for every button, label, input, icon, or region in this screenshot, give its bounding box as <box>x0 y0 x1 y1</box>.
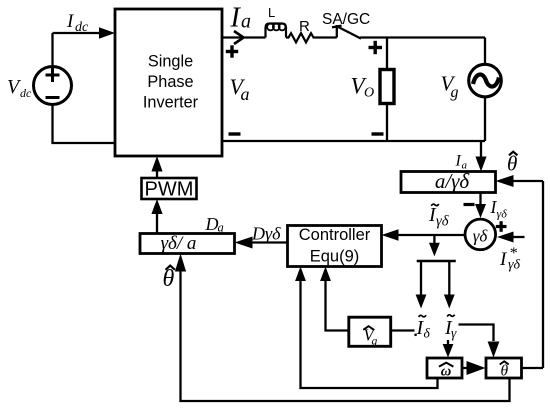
label L <box>268 5 275 20</box>
arrow omega to theta <box>462 367 467 369</box>
arrow gd/a to PWM <box>156 214 158 234</box>
wire Vdc top lead <box>51 33 53 67</box>
switch SA/GC <box>336 25 338 38</box>
svg-text:R: R <box>299 18 310 35</box>
arrow PWM to inverter <box>156 172 158 179</box>
inductor L <box>266 24 287 38</box>
svg-text:Inverter: Inverter <box>143 94 199 112</box>
wire theta feedback into a/gd <box>513 180 543 182</box>
arrow Ia on wire <box>234 31 244 44</box>
svg-text:I: I <box>499 249 508 270</box>
svg-text:SA/GC: SA/GC <box>322 11 370 28</box>
svg-text:I: I <box>455 153 462 170</box>
svg-text:dc: dc <box>20 86 32 100</box>
svg-text:γ: γ <box>451 326 457 341</box>
svg-text:D: D <box>205 214 219 234</box>
wire summing output to controller <box>398 234 465 236</box>
label R <box>299 18 310 35</box>
label theta-hat bottom <box>163 266 175 292</box>
label Id-tilde <box>416 317 431 341</box>
svg-text:PWM: PWM <box>145 179 194 201</box>
wire Vg-hat to controller <box>326 281 349 331</box>
svg-text:Phase: Phase <box>147 73 193 91</box>
block gd/a <box>140 234 235 254</box>
wire Vg bottom lead <box>484 98 486 141</box>
wire Ig-tilde arrow <box>448 261 450 295</box>
label Da <box>205 214 224 235</box>
source Vg <box>469 64 502 97</box>
svg-text:a: a <box>218 221 224 235</box>
wire Vg-hat right stub <box>391 329 415 331</box>
label Dgd <box>251 224 281 244</box>
svg-text:γδ: γδ <box>497 207 508 221</box>
block Vg-hat <box>349 317 391 346</box>
label Idc <box>66 11 89 35</box>
svg-text:L: L <box>268 5 275 20</box>
summing junction gd <box>465 219 496 250</box>
minus Va <box>229 132 241 135</box>
svg-text:γδ/ a: γδ/ a <box>161 233 197 254</box>
plus Va <box>226 45 238 57</box>
svg-text:Dγδ: Dγδ <box>251 224 281 244</box>
wire bottom rail <box>222 140 485 142</box>
load Vo <box>380 70 394 104</box>
wire Igd-star input <box>511 236 525 238</box>
wire branch down from output <box>433 235 435 243</box>
svg-text:Equ(9): Equ(9) <box>310 248 360 266</box>
wire switch to top-right corner <box>360 36 485 38</box>
wire theta output right <box>522 367 544 369</box>
wire right vertical <box>542 181 544 368</box>
wire Ig to theta block <box>459 325 494 342</box>
svg-text:γδ: γδ <box>436 214 449 230</box>
wire to switch <box>317 36 337 38</box>
wire Id-tilde arrow <box>420 261 422 295</box>
wire theta bottom feedback <box>181 271 510 401</box>
minus Vo <box>372 132 384 135</box>
block inverter <box>115 9 222 156</box>
resistor R <box>286 33 317 42</box>
source Vdc <box>34 67 72 105</box>
svg-text:dc: dc <box>75 20 89 35</box>
svg-text:Single: Single <box>148 53 193 71</box>
wire bottom to inverter <box>51 142 115 144</box>
label Igd-star <box>499 245 521 273</box>
wire Ig to omega block <box>447 340 449 345</box>
svg-text:θ: θ <box>163 266 175 292</box>
wire controller to gd/a <box>252 241 288 243</box>
block PWM <box>142 178 197 199</box>
svg-text:a: a <box>241 11 251 33</box>
wire Vo top lead <box>386 38 388 69</box>
svg-text:θ: θ <box>500 363 508 380</box>
svg-text:a: a <box>241 84 250 104</box>
plus sign summing <box>496 221 507 232</box>
label Vo <box>351 74 375 101</box>
plus Vo <box>369 41 383 54</box>
block omega-hat <box>427 358 462 378</box>
wire Ia output <box>222 36 266 38</box>
label Vdc <box>7 76 32 100</box>
label Ia <box>230 3 252 34</box>
minus sign summing <box>464 203 475 206</box>
block controller <box>288 226 382 267</box>
wire Vdc bottom lead <box>51 105 53 144</box>
svg-text:g: g <box>372 336 378 348</box>
svg-text:O: O <box>364 86 374 101</box>
svg-text:γδ: γδ <box>473 227 489 246</box>
wire omega bottom feedback to controller <box>301 281 438 388</box>
wire Ia feedback branch <box>480 141 482 157</box>
svg-text:g: g <box>451 84 459 101</box>
label Ig-tilde <box>444 317 457 341</box>
svg-text:a/γδ: a/γδ <box>435 169 471 193</box>
svg-text:δ: δ <box>424 326 431 341</box>
tilde of Ig <box>447 315 455 317</box>
dot near Id <box>414 334 417 337</box>
svg-text:Controller: Controller <box>299 226 371 244</box>
wire Idc to inverter <box>53 32 101 34</box>
label Igd <box>490 197 508 221</box>
wire Vo bottom lead <box>386 103 388 141</box>
svg-text:I: I <box>230 3 242 34</box>
label Vg <box>441 72 459 102</box>
block theta-hat <box>486 358 522 378</box>
block a/gd <box>401 172 496 193</box>
label theta-hat top right <box>507 152 517 176</box>
tilde of Id <box>419 315 427 317</box>
label SA/GC <box>322 11 370 28</box>
svg-text:γδ: γδ <box>508 258 521 273</box>
svg-text:I: I <box>66 11 75 32</box>
wire a/gd to summing <box>479 193 481 205</box>
label Va <box>230 74 250 104</box>
label Ia feedback <box>455 153 468 172</box>
label Igd-tilde <box>431 204 439 206</box>
wire Vg top lead <box>484 38 486 64</box>
wire T bar <box>417 260 456 263</box>
